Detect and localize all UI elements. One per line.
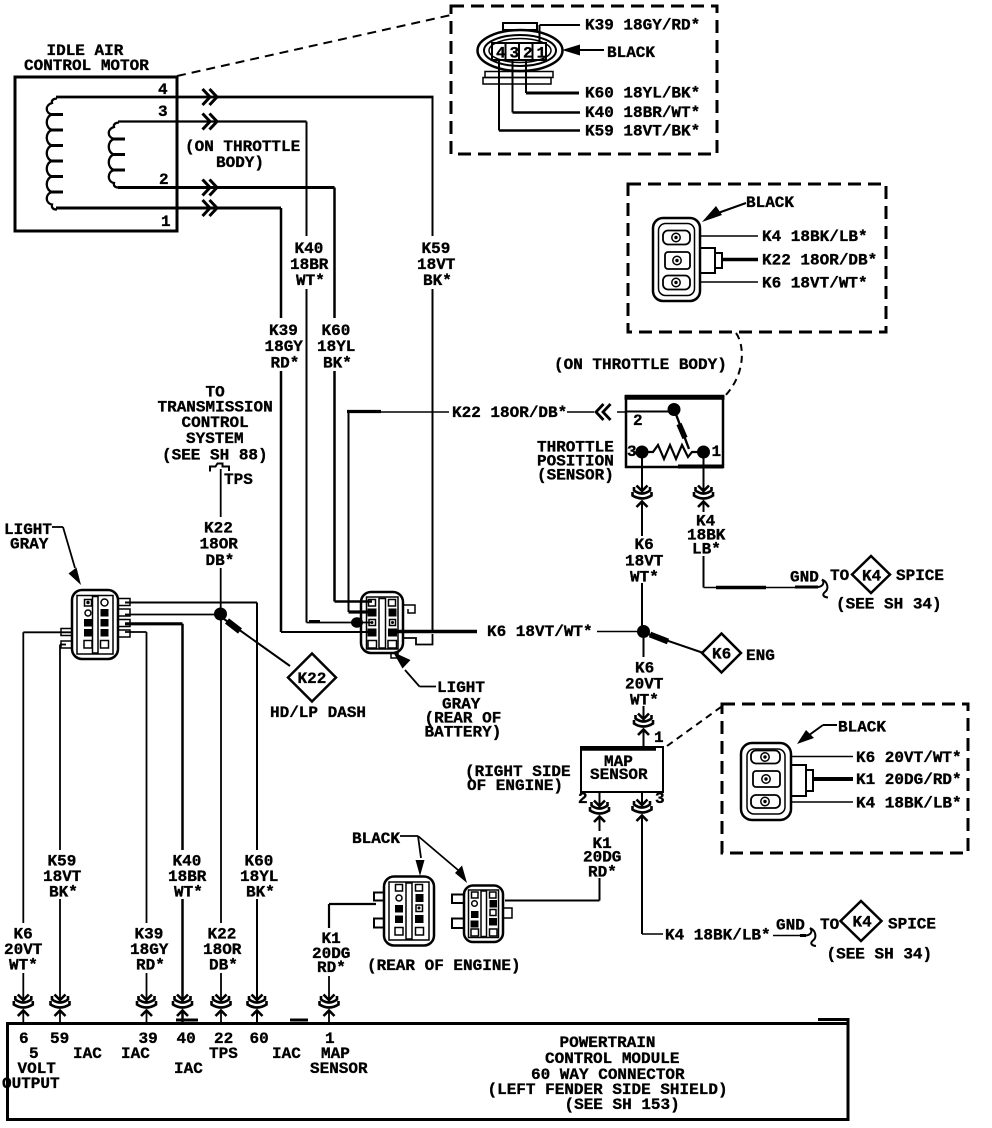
svg-text:2: 2 [523, 45, 533, 63]
svg-text:WT*: WT* [630, 569, 659, 587]
svg-text:18GY: 18GY [265, 338, 304, 356]
svg-text:(REAR OF ENGINE): (REAR OF ENGINE) [367, 957, 521, 975]
svg-text:K60 18YL/BK*: K60 18YL/BK* [585, 85, 700, 103]
svg-text:IAC: IAC [73, 1045, 102, 1063]
svg-text:SYSTEM: SYSTEM [186, 430, 244, 448]
svg-text:BATTERY): BATTERY) [425, 724, 502, 742]
svg-text:WT*: WT* [9, 957, 38, 975]
svg-text:40: 40 [177, 1030, 196, 1048]
svg-text:K4: K4 [853, 914, 873, 932]
svg-text:ENG: ENG [746, 647, 775, 665]
svg-text:SPICE: SPICE [896, 567, 944, 585]
svg-text:SENSOR: SENSOR [590, 766, 648, 784]
svg-text:WT*: WT* [296, 272, 325, 290]
svg-text:2: 2 [159, 171, 169, 189]
svg-text:K6: K6 [712, 646, 731, 664]
svg-text:BODY): BODY) [216, 154, 264, 172]
svg-text:(ON THROTTLE BODY): (ON THROTTLE BODY) [554, 356, 727, 374]
svg-text:LB*: LB* [692, 541, 721, 559]
svg-text:GND: GND [790, 569, 819, 587]
svg-text:(SENSOR): (SENSOR) [537, 467, 614, 485]
svg-text:SPICE: SPICE [888, 916, 936, 934]
svg-text:K4: K4 [862, 568, 882, 586]
svg-text:DB*: DB* [206, 552, 235, 570]
svg-text:TPS: TPS [224, 471, 253, 489]
svg-text:2: 2 [578, 790, 588, 808]
svg-text:IAC: IAC [174, 1060, 203, 1078]
svg-text:K6: K6 [635, 536, 654, 554]
svg-text:BLACK: BLACK [838, 719, 886, 737]
svg-text:K22: K22 [298, 670, 327, 688]
svg-text:(SEE SH 88): (SEE SH 88) [162, 447, 268, 465]
svg-text:GRAY: GRAY [10, 536, 49, 554]
svg-text:1: 1 [654, 729, 664, 747]
svg-text:RD*: RD* [271, 355, 300, 373]
svg-text:K22 18OR/DB*: K22 18OR/DB* [762, 252, 877, 270]
svg-text:3: 3 [510, 45, 520, 63]
svg-text:CONTROL MOTOR: CONTROL MOTOR [24, 57, 149, 75]
svg-text:RD*: RD* [317, 959, 346, 977]
svg-text:OF ENGINE): OF ENGINE) [467, 777, 563, 795]
svg-text:1: 1 [537, 45, 547, 63]
svg-text:60: 60 [250, 1030, 269, 1048]
svg-text:K4 18BK/LB*: K4 18BK/LB* [856, 795, 962, 813]
svg-text:K6 20VT/WT*: K6 20VT/WT* [856, 749, 962, 767]
svg-text:BK*: BK* [49, 884, 78, 902]
svg-text:SENSOR: SENSOR [310, 1060, 368, 1078]
svg-text:WT*: WT* [174, 884, 203, 902]
svg-text:(SEE SH 34): (SEE SH 34) [827, 946, 933, 964]
svg-text:BK*: BK* [246, 884, 275, 902]
svg-text:3: 3 [627, 443, 637, 461]
svg-text:K4 18BK/LB*: K4 18BK/LB* [665, 927, 771, 945]
svg-text:6: 6 [19, 1030, 29, 1048]
svg-text:4: 4 [158, 81, 168, 99]
svg-text:(SEE SH 34): (SEE SH 34) [836, 596, 942, 614]
svg-text:RD*: RD* [588, 864, 617, 882]
svg-text:WT*: WT* [630, 692, 659, 710]
svg-text:K1 20DG/RD*: K1 20DG/RD* [856, 771, 962, 789]
svg-text:RD*: RD* [136, 957, 165, 975]
svg-text:DB*: DB* [209, 957, 238, 975]
svg-text:TPS: TPS [209, 1045, 238, 1063]
svg-text:GND: GND [776, 917, 805, 935]
svg-text:BLACK: BLACK [746, 194, 794, 212]
svg-text:K6 18VT/WT*: K6 18VT/WT* [762, 275, 868, 293]
svg-text:(SEE SH 153): (SEE SH 153) [565, 1096, 680, 1114]
svg-text:K59 18VT/BK*: K59 18VT/BK* [585, 123, 700, 141]
svg-text:1: 1 [161, 213, 171, 231]
svg-text:OUTPUT: OUTPUT [2, 1075, 60, 1093]
svg-text:BLACK: BLACK [607, 44, 655, 62]
svg-text:K40 18BR/WT*: K40 18BR/WT* [585, 104, 700, 122]
svg-text:1: 1 [712, 443, 722, 461]
svg-text:K39 18GY/RD*: K39 18GY/RD* [585, 17, 700, 35]
svg-text:59: 59 [50, 1030, 69, 1048]
svg-text:IAC: IAC [272, 1045, 301, 1063]
svg-text:TO: TO [820, 916, 840, 934]
svg-text:IAC: IAC [121, 1045, 150, 1063]
svg-text:LIGHT: LIGHT [437, 679, 485, 697]
svg-text:4: 4 [496, 45, 506, 63]
svg-text:K22 18OR/DB*: K22 18OR/DB* [452, 404, 567, 422]
svg-text:K6 18VT/WT*: K6 18VT/WT* [487, 623, 593, 641]
svg-text:TO: TO [830, 567, 850, 585]
svg-text:HD/LP DASH: HD/LP DASH [270, 704, 366, 722]
svg-text:3: 3 [158, 103, 168, 121]
svg-text:BK*: BK* [323, 355, 352, 373]
svg-text:K4 18BK/LB*: K4 18BK/LB* [762, 228, 868, 246]
svg-text:BK*: BK* [423, 272, 452, 290]
svg-text:BLACK: BLACK [352, 830, 400, 848]
svg-text:18YL: 18YL [317, 338, 355, 356]
svg-text:18OR: 18OR [200, 536, 239, 554]
svg-text:3: 3 [655, 790, 665, 808]
svg-text:2: 2 [633, 412, 643, 430]
